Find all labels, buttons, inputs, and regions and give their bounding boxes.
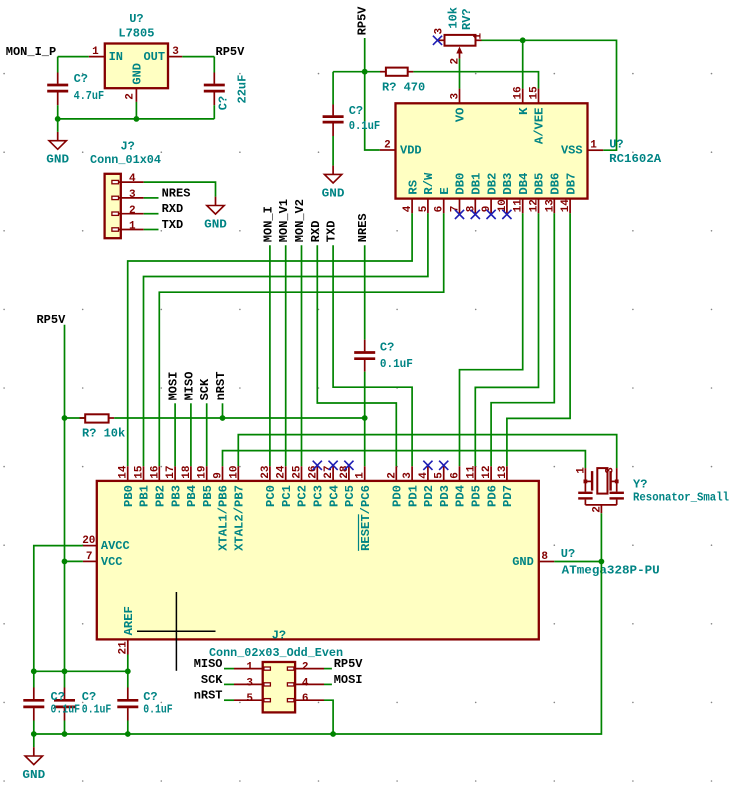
wire TXD label to PD1: [333, 245, 412, 466]
svg-text:14: 14: [560, 199, 572, 213]
connector J1 pin 3: [112, 189, 144, 201]
wire DB6 to PD6: [491, 213, 554, 466]
MCU U3 top pin 10 XTAL2/PB7: [228, 465, 246, 550]
no-connect X at LCD pin 7 DB0: [455, 210, 464, 219]
wire XTAL1 PB6 to resonator pin1: [223, 451, 586, 469]
svg-text:XTAL2/PB7: XTAL2/PB7: [233, 485, 247, 551]
regulator U1 pin 1 IN: [89, 46, 105, 58]
svg-text:GND: GND: [46, 153, 69, 167]
svg-text:Y?: Y?: [633, 478, 647, 492]
svg-text:MOSI: MOSI: [167, 372, 181, 401]
wire MISO to PB4: [190, 403, 192, 466]
svg-text:15: 15: [134, 465, 146, 479]
svg-text:27: 27: [323, 465, 335, 478]
svg-text:DB5: DB5: [533, 173, 547, 195]
svg-text:16: 16: [513, 86, 525, 99]
no-connect X at RV1 pin 3: [433, 36, 442, 45]
svg-text:GND: GND: [130, 63, 144, 85]
svg-text:9: 9: [213, 472, 225, 479]
svg-text:4: 4: [302, 677, 309, 689]
wire RP5V corner down through C2: [213, 57, 215, 73]
wire R/W to PB1: [144, 213, 428, 466]
svg-text:13: 13: [497, 465, 509, 479]
svg-text:1: 1: [576, 467, 588, 474]
svg-text:VSS: VSS: [561, 144, 583, 158]
MCU U3 top pin 16 PB2: [149, 465, 167, 506]
wire VCC wire to RP5V rail: [65, 560, 83, 562]
svg-text:TXD: TXD: [162, 218, 184, 232]
svg-text:Conn_02x03_Odd_Even: Conn_02x03_Odd_Even: [209, 646, 343, 660]
connector J2 pin 3: [234, 677, 270, 689]
svg-text:U?: U?: [609, 138, 623, 152]
potentiometer RV1 pin 1: [473, 33, 485, 41]
wire rail to cap C5: [33, 671, 35, 687]
svg-text:23: 23: [260, 465, 272, 479]
svg-text:nRST: nRST: [214, 372, 228, 401]
regulator U1 pin names IN OUT GND: [109, 50, 166, 84]
svg-text:GND: GND: [22, 768, 45, 782]
svg-text:PD1: PD1: [406, 485, 420, 507]
LCD U2 bottom pin 7 DB0: [450, 173, 468, 214]
junction NRES junction on 10k rail: [362, 415, 368, 421]
connector J1 pin 2: [112, 205, 144, 217]
svg-text:VDD: VDD: [400, 143, 422, 157]
wire nRST label to 10k rail: [222, 403, 224, 418]
svg-text:DB1: DB1: [470, 173, 484, 195]
svg-text:DB2: DB2: [485, 173, 499, 195]
wire SCK to PB5: [206, 403, 208, 466]
LCD U2 top pin 15 A/VEE: [529, 86, 547, 144]
svg-text:PD7: PD7: [501, 485, 515, 507]
svg-text:C?: C?: [349, 104, 363, 118]
svg-text:J?: J?: [272, 629, 286, 643]
wire GND pin to resonator column: [554, 561, 601, 563]
svg-text:20: 20: [82, 535, 95, 547]
LCD U2 top pin 3 VO: [450, 89, 468, 123]
svg-text:16: 16: [149, 465, 161, 478]
junction nRST junction on 10k rail: [220, 415, 226, 421]
LCD U2 bottom pin 14 DB7: [560, 173, 578, 214]
ground symbol GND4 bottom left: [22, 747, 45, 782]
svg-text:15: 15: [529, 86, 541, 100]
capacitor C3 0.1uF: [323, 105, 344, 137]
LCD U2 bottom pin 12 DB5: [529, 173, 547, 214]
potentiometer RV1 pin 3 no-connect: [439, 39, 445, 41]
svg-text:28: 28: [339, 465, 351, 479]
svg-text:RXD: RXD: [309, 221, 323, 243]
svg-text:PB0: PB0: [122, 485, 136, 507]
MCU U3 pin 21 AREF: [118, 606, 136, 654]
svg-text:Conn_01x04: Conn_01x04: [90, 153, 161, 167]
MCU U3 top pin 19 PB5: [197, 465, 215, 506]
svg-text:PB5: PB5: [201, 485, 215, 507]
svg-text:PD6: PD6: [485, 485, 499, 507]
svg-text:11: 11: [465, 465, 477, 479]
wire 470 rail right part to A/VEE: [413, 72, 538, 89]
potentiometer RV1 body: [445, 35, 476, 46]
svg-text:3: 3: [450, 93, 462, 100]
no-connect X at LCD pin 9 DB2: [487, 210, 496, 219]
svg-text:GND: GND: [322, 186, 345, 200]
connector J2 body: [263, 662, 295, 712]
svg-text:PB2: PB2: [154, 485, 168, 507]
svg-text:VCC: VCC: [101, 555, 123, 569]
svg-text:2: 2: [129, 205, 136, 217]
wire MOSI to PB3: [174, 403, 176, 466]
MCU U3 top pin 28 PC5: [339, 465, 357, 507]
svg-text:3: 3: [605, 467, 617, 474]
MCU U3 top pin 26 PC3: [307, 465, 325, 506]
svg-text:10k: 10k: [446, 7, 460, 29]
wire J2 pin1 stub: [224, 668, 234, 670]
svg-text:U?: U?: [129, 12, 143, 26]
svg-text:PD2: PD2: [422, 485, 436, 507]
wire cap C5 to gnd rail: [33, 721, 35, 735]
svg-text:C?: C?: [216, 96, 230, 110]
svg-text:MON_I: MON_I: [261, 206, 275, 242]
LCD U2 bottom pin 9 DB2: [481, 173, 499, 214]
junction gnd rail at regulator pin2: [134, 116, 140, 122]
LCD U2 bottom pin 11 DB4: [513, 173, 531, 214]
svg-text:NRES: NRES: [162, 186, 191, 200]
svg-text:12: 12: [481, 465, 493, 478]
svg-text:1: 1: [92, 46, 99, 58]
ground symbol GND1 below C1: [46, 132, 69, 167]
wire rail to cap C6: [64, 671, 66, 687]
svg-text:14: 14: [118, 465, 130, 479]
LCD U2 bottom pin 10 DB3: [497, 173, 515, 214]
svg-text:1: 1: [246, 662, 253, 674]
svg-text:VO: VO: [454, 107, 468, 122]
wire C2 to gnd rail: [213, 105, 215, 119]
svg-text:2: 2: [592, 506, 604, 513]
connector J2 pin 2: [287, 662, 324, 674]
resistor R2 10k: [65, 414, 115, 422]
junction gnd rail at C6: [62, 731, 68, 737]
wire J2 pin2 stub: [324, 668, 332, 670]
wire pot pin1 rail to VSS loop: [482, 40, 617, 150]
wire corner down to C3: [332, 72, 334, 105]
wire C3 to GND3: [332, 136, 334, 166]
svg-text:SCK: SCK: [201, 673, 223, 687]
wire RS to PB0: [128, 213, 412, 466]
MCU U3 top pin 25 PC2: [292, 465, 310, 507]
no-connect X at LCD pin 10 DB3: [502, 210, 511, 219]
svg-text:24: 24: [276, 465, 288, 479]
wire C1 to gnd rail: [57, 105, 59, 119]
wire AREF to cap rail: [127, 655, 129, 672]
junction AREF cap rail junction: [125, 668, 131, 674]
svg-text:22uF: 22uF: [235, 75, 249, 104]
junction K junction on pot rail: [520, 37, 526, 43]
wire C4 to RESET junction and PC6: [364, 372, 366, 467]
wire J1 pin4 to GND2: [144, 182, 216, 197]
wire AVCC wire to left rail: [34, 546, 83, 672]
svg-text:0.1uF: 0.1uF: [82, 702, 112, 716]
junction gnd rail at C1: [55, 116, 61, 122]
svg-text:PD5: PD5: [470, 485, 484, 507]
svg-text:J?: J?: [120, 139, 134, 153]
capacitor C6 0.1uF: [54, 688, 75, 721]
svg-text:0.1uF: 0.1uF: [51, 702, 81, 716]
svg-text:1: 1: [129, 221, 136, 233]
svg-text:L7805: L7805: [118, 27, 154, 41]
wire MON_I_P down to C1: [57, 57, 59, 73]
svg-text:1: 1: [473, 33, 485, 40]
MCU U3 top pin 14 PB0: [118, 465, 136, 507]
svg-text:R? 470: R? 470: [382, 81, 425, 95]
svg-text:10: 10: [228, 465, 240, 478]
wire gnd rail to GND1: [57, 119, 59, 132]
LCD U2 bottom pin 5 R/W: [418, 172, 436, 213]
MCU U3 top pin 27 PC4: [323, 465, 341, 506]
svg-text:19: 19: [197, 465, 209, 478]
svg-text:A/VEE: A/VEE: [533, 108, 547, 145]
svg-text:DB6: DB6: [549, 173, 563, 195]
svg-text:RP5V: RP5V: [36, 313, 66, 327]
MCU U3 top pin 1 RESET/PC6: [355, 466, 373, 551]
MCU U3 top pin 23 PC0: [260, 465, 278, 507]
connector J1 pin 4: [112, 173, 144, 185]
svg-text:2: 2: [302, 662, 309, 674]
svg-text:5: 5: [434, 472, 446, 479]
svg-text:GND: GND: [512, 555, 534, 569]
wire J2 pin6 to gnd rail: [324, 700, 333, 734]
connector J2 pin 6: [287, 693, 324, 705]
no-connect X at MCU pin top x=427.90000000000003: [423, 461, 432, 470]
wire J1 pin1 stub: [144, 229, 159, 231]
svg-text:2: 2: [384, 139, 391, 151]
MCU U3 top pin 4 PD2: [418, 466, 436, 507]
wire wiper to VO: [459, 59, 461, 89]
svg-text:1: 1: [590, 139, 597, 151]
wire MON_I to PC0: [269, 245, 271, 466]
capacitor C2 22uF: [204, 73, 225, 106]
svg-text:MON_I_P: MON_I_P: [6, 45, 56, 59]
svg-text:DB7: DB7: [564, 173, 578, 195]
svg-text:MISO: MISO: [194, 657, 223, 671]
capacitor C4 0.1uF in NRES line: [354, 340, 375, 372]
wire gnd rail under regulator: [58, 118, 215, 120]
svg-text:DB3: DB3: [501, 173, 515, 195]
svg-text:TXD: TXD: [325, 221, 339, 243]
svg-text:MON_V1: MON_V1: [277, 199, 291, 242]
MCU U3 pin 7 VCC: [83, 551, 123, 569]
LCD U2 top pin 16 K: [513, 86, 531, 115]
MCU U3 top pin 12 PD6: [481, 465, 499, 506]
junction RP5V rail at VCC row: [62, 559, 68, 565]
LCD U2 bottom pin 13 DB6: [544, 173, 562, 214]
svg-text:3: 3: [172, 46, 179, 58]
wire MON_I_P to IN pin: [58, 56, 89, 58]
wire regulator pin2 to gnd rail: [135, 102, 137, 119]
LCD U2 pin 2 VDD: [380, 139, 422, 157]
svg-text:PC0: PC0: [264, 485, 278, 507]
MCU U3 top pin 15 PB1: [134, 465, 152, 507]
junction 10k rail at RP5V column: [62, 415, 68, 421]
junction RP5V rail at 470 rail: [362, 69, 368, 75]
wire OUT pin to RP5V corner: [182, 56, 214, 58]
capacitor C7 0.1uF: [117, 688, 138, 721]
svg-text:RC1602A: RC1602A: [609, 152, 662, 166]
svg-text:PB3: PB3: [169, 485, 183, 507]
svg-text:1: 1: [355, 472, 367, 479]
svg-text:RP5V: RP5V: [355, 6, 369, 36]
svg-text:RP5V: RP5V: [216, 45, 246, 59]
svg-text:PC2: PC2: [296, 485, 310, 507]
wire J1 pin3 stub: [144, 197, 159, 199]
wire J2 pin5 stub: [224, 699, 234, 701]
svg-text:K: K: [517, 107, 531, 115]
svg-text:3: 3: [246, 677, 253, 689]
wire 10k rail: [114, 417, 365, 419]
LCD U2 bottom pin 8 DB1: [465, 173, 483, 214]
junction gnd rail at C7: [125, 731, 131, 737]
svg-text:0.1uF: 0.1uF: [143, 702, 173, 716]
MCU U3 top pin 17 PB3: [165, 465, 183, 506]
no-connect X at MCU pin top x=333.09999999999997: [329, 461, 338, 470]
wire RP5V rail down to VDD: [365, 38, 380, 150]
svg-text:MOSI: MOSI: [334, 673, 363, 687]
svg-text:IN: IN: [109, 50, 123, 64]
svg-text:PC4: PC4: [327, 485, 341, 507]
wire cap C7 to gnd rail: [127, 721, 129, 735]
svg-text:5: 5: [418, 205, 430, 212]
connector J1 body: [105, 174, 121, 238]
wire K pin wire: [522, 40, 524, 88]
junction gnd rail at C5: [31, 731, 37, 737]
svg-text:PB4: PB4: [185, 485, 199, 507]
svg-text:18: 18: [181, 465, 193, 479]
svg-text:OUT: OUT: [143, 50, 165, 64]
resonator Y1 symbol: [576, 467, 624, 513]
svg-text:26: 26: [307, 465, 319, 478]
MCU U3 top pin 9 XTAL1/PB6: [213, 466, 231, 551]
svg-text:DB0: DB0: [454, 173, 468, 195]
MCU U3 top pin 24 PC1: [276, 465, 294, 507]
MCU U3 top pin 13 PD7: [497, 465, 515, 507]
svg-text:25: 25: [292, 465, 304, 479]
svg-text:0.1uF: 0.1uF: [349, 119, 381, 133]
svg-text:PC5: PC5: [343, 485, 357, 507]
wire DB5 to PD5: [475, 213, 538, 466]
svg-text:RV?: RV?: [460, 8, 474, 30]
no-connect X at MCU pin top x=317.29999999999995: [313, 461, 322, 470]
wire RP5V left rail down: [64, 325, 66, 672]
ground symbol GND2 for J1 pin4: [204, 197, 227, 232]
wire XTAL2 PB7 to resonator pin3: [238, 435, 616, 469]
svg-text:RP5V: RP5V: [334, 657, 364, 671]
MCU U3 pin 8 GND: [512, 551, 554, 569]
wire J2 pin3 stub: [224, 683, 234, 685]
svg-text:NRES: NRES: [356, 213, 370, 242]
svg-text:11: 11: [513, 199, 525, 213]
svg-text:13: 13: [544, 199, 556, 213]
wire bottom gnd rail: [34, 733, 333, 735]
LCD U2 bottom pin 4 RS: [402, 180, 420, 213]
connector J2 pin 1: [234, 662, 270, 674]
capacitor C5 0.1uF: [23, 688, 44, 721]
svg-text:PC1: PC1: [280, 485, 294, 507]
potentiometer RV1 wiper arrow pin 2: [450, 47, 463, 65]
graphic cross inside MCU: [137, 592, 216, 671]
svg-text:4: 4: [402, 205, 414, 212]
connector J2 pin 4: [287, 677, 324, 689]
MCU U3 top pin 11 PD5: [465, 465, 483, 507]
wire DB7 to PD7: [507, 213, 570, 466]
svg-text:2: 2: [386, 472, 398, 479]
svg-text:3: 3: [402, 472, 414, 479]
junction RP5V rail at top cap rail: [62, 668, 68, 674]
svg-text:7: 7: [86, 551, 93, 563]
svg-text:RESET/PC6: RESET/PC6: [359, 485, 373, 551]
svg-text:PD4: PD4: [454, 485, 468, 507]
svg-text:AREF: AREF: [122, 606, 136, 635]
MCU U3 top pin 3 PD1: [402, 466, 420, 507]
wire 470 rail left part: [333, 71, 380, 73]
svg-text:AVCC: AVCC: [101, 539, 130, 553]
svg-text:MISO: MISO: [182, 372, 196, 401]
wire E to PB2: [159, 213, 443, 466]
svg-text:0.1uF: 0.1uF: [380, 357, 413, 371]
svg-text:PB1: PB1: [138, 485, 152, 507]
junction GND pin junction with resonator column: [599, 559, 605, 565]
svg-text:6: 6: [450, 472, 462, 479]
MCU U3 top pin 18 PB4: [181, 465, 199, 507]
LCD U2 pin 1 VSS: [561, 139, 603, 157]
connector J2 pin 5: [234, 693, 270, 705]
svg-text:21: 21: [118, 641, 130, 655]
wire DB4 to PD4: [460, 213, 523, 466]
potentiometer RV1 texts 10k RV?: [446, 7, 474, 30]
regulator U1 pin 3 OUT: [168, 46, 182, 58]
wire RXD label to PD0: [317, 245, 396, 466]
svg-text:SCK: SCK: [198, 378, 212, 400]
no-connect X at LCD pin 8 DB1: [471, 210, 480, 219]
wire cap C6 to gnd rail: [64, 721, 66, 735]
wire J2 pin4 stub: [324, 683, 332, 685]
svg-text:R? 10k: R? 10k: [82, 427, 125, 441]
LCD module U2 body RC1602A: [396, 103, 588, 198]
svg-text:4.7uF: 4.7uF: [74, 89, 105, 103]
svg-text:6: 6: [434, 206, 446, 213]
svg-text:3: 3: [129, 189, 136, 201]
LCD U2 bottom pin 6 E: [434, 187, 452, 213]
svg-text:PD0: PD0: [391, 485, 405, 507]
svg-text:MON_V2: MON_V2: [293, 199, 307, 242]
svg-text:RXD: RXD: [162, 202, 184, 216]
svg-text:GND: GND: [204, 218, 227, 232]
svg-text:XTAL1/PB6: XTAL1/PB6: [217, 485, 231, 551]
MCU U3 top pin 2 PD0: [386, 466, 404, 507]
junction AVCC rail at cap rail: [31, 668, 37, 674]
svg-text:17: 17: [165, 465, 177, 478]
wire resonator pin2 to GND net: [333, 513, 601, 734]
wire rail to cap C7: [127, 671, 129, 687]
no-connect X at MCU pin top x=348.9: [344, 461, 353, 470]
svg-text:6: 6: [302, 693, 309, 705]
no-connect X at MCU pin top x=443.70000000000005: [439, 461, 448, 470]
MCU U3 body ATmega328P-PU: [97, 481, 539, 640]
svg-text:4: 4: [129, 173, 136, 185]
wire J1 pin2 stub: [144, 213, 159, 215]
capacitor C1 4.7uF: [47, 73, 68, 106]
MCU U3 top pin 5 PD3: [434, 466, 452, 507]
regulator U1 pin 2 GND: [124, 88, 136, 102]
svg-text:C?: C?: [380, 340, 394, 354]
wire gnd rail stub below C5: [33, 734, 35, 747]
MCU U3 top pin 6 PD4: [450, 466, 468, 507]
